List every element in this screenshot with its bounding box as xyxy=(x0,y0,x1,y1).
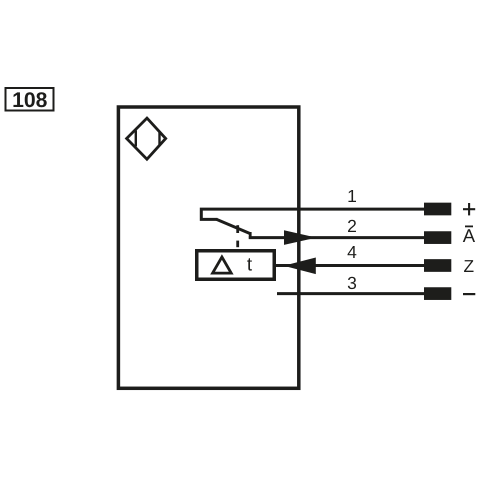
svg-text:t: t xyxy=(247,255,253,276)
svg-text:3: 3 xyxy=(347,273,357,293)
svg-text:108: 108 xyxy=(12,89,48,112)
svg-text:2: 2 xyxy=(347,216,357,236)
svg-text:1: 1 xyxy=(347,186,357,206)
svg-text:Z: Z xyxy=(464,256,475,276)
svg-text:A: A xyxy=(463,225,476,246)
svg-text:4: 4 xyxy=(347,242,357,262)
